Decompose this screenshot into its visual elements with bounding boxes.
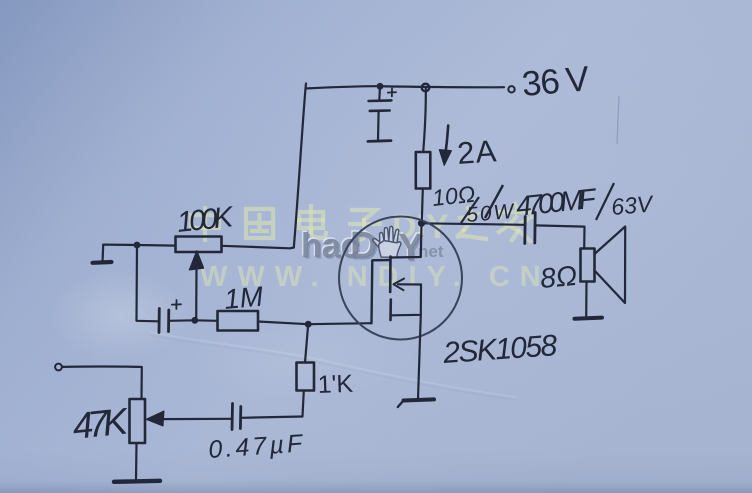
terminal 36V — [508, 86, 514, 92]
svg-text:36V: 36V — [520, 59, 591, 104]
ground (47K) — [114, 481, 160, 482]
node rail-R1 ring junction — [422, 84, 430, 92]
svg-text:1M: 1M — [223, 281, 265, 315]
wm char guo — [246, 209, 273, 238]
svg-text:1'K: 1'K — [317, 370, 354, 399]
node rail-C1 junction — [377, 83, 384, 90]
Q1 channel top bar — [389, 257, 392, 293]
wire cap to speaker — [535, 225, 584, 248]
faint crease — [150, 332, 516, 397]
47K wiper arrow — [146, 411, 164, 426]
svg-text:47K: 47K — [71, 400, 132, 447]
wire 100K left to ground — [103, 245, 175, 246]
node 1K top — [305, 321, 312, 328]
2A current arrow — [445, 126, 448, 158]
svg-text:63V: 63V — [610, 190, 656, 220]
slash 10/50 — [485, 185, 503, 218]
wire node to 1M — [195, 319, 218, 322]
slash 4700/63 — [596, 183, 614, 220]
wire 1K to C4 — [242, 417, 303, 418]
potentiometer 100K body — [176, 237, 222, 253]
wm char zhong — [191, 208, 219, 240]
wm char jia — [499, 204, 532, 241]
capacitor C4 0.47MF — [231, 404, 234, 430]
potentiometer 47K body — [130, 399, 146, 443]
resistor 1M — [218, 311, 259, 331]
Q1 gate — [372, 260, 391, 323]
Q1 drain lead — [391, 223, 422, 257]
wire 1M to gate — [258, 322, 372, 325]
wire C2 to wiper node — [169, 319, 195, 322]
svg-text:100K: 100K — [175, 201, 236, 239]
capacitor C3 4700MF — [523, 217, 526, 244]
wire drain to output cap — [422, 223, 525, 225]
Q1 channel bottom bar — [389, 300, 392, 321]
wm char zhi — [456, 208, 486, 239]
capacitor C1 (rail filter) — [378, 86, 381, 100]
node wiper/1M — [191, 317, 198, 324]
ground (speaker) — [575, 318, 603, 319]
input terminal — [55, 364, 62, 371]
wire junction down left branch — [137, 245, 158, 321]
wire speaker to ground — [585, 282, 587, 318]
ground (input bias) — [101, 245, 104, 261]
Q1 source leads — [392, 285, 421, 316]
transistor Q1 2SK1058 envelope — [339, 217, 462, 340]
wire top rail — [306, 86, 505, 88]
wire 47K bottom — [135, 444, 138, 480]
svg-text:8Ω: 8Ω — [539, 260, 578, 294]
wire 47K top to input terminal — [63, 366, 142, 399]
capacitor C2 (electrolytic, input) — [158, 309, 161, 333]
100K wiper arrow — [195, 266, 198, 320]
speaker — [581, 249, 595, 282]
Q1 body arrow — [398, 283, 421, 285]
wm char dian — [299, 206, 326, 238]
node at 100K left — [134, 242, 141, 249]
resistor R1 10ohm/50W — [423, 88, 426, 153]
wm char zi — [350, 210, 380, 240]
wire C4 to 47K wiper — [163, 418, 233, 421]
node drain junction — [418, 220, 425, 227]
wire 100K right — [222, 246, 294, 249]
svg-text:2A: 2A — [456, 133, 498, 171]
ground (source) — [404, 399, 435, 400]
hand glyph — [373, 226, 401, 257]
wire left drop to 100K — [294, 84, 306, 248]
resistor R2 1K — [305, 324, 308, 362]
